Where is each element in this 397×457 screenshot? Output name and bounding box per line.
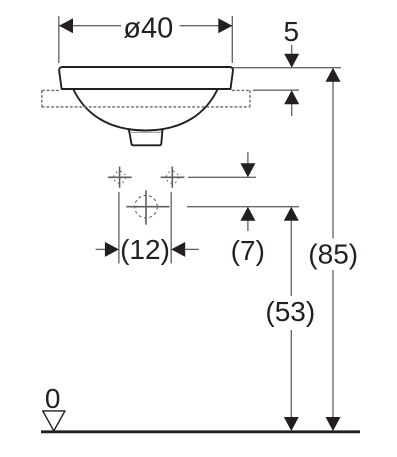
dim ø40 right extension line — [231, 16, 233, 63]
svg-text:(53): (53) — [265, 296, 315, 327]
tap hole mark right: cross — [161, 167, 185, 188]
drain trap mark: dashed circle — [135, 195, 158, 218]
dim 5 lower arrowhead (up) — [284, 90, 299, 104]
svg-text:5: 5 — [284, 16, 300, 47]
counter top reference line — [253, 89, 299, 91]
svg-text:(7): (7) — [231, 235, 265, 266]
drain fitting — [129, 130, 163, 146]
drain flange line — [131, 131, 162, 133]
dim (12) right extension line — [170, 192, 172, 264]
datum triangle — [43, 411, 65, 431]
svg-text:(12): (12) — [120, 234, 170, 265]
dim (85) line upper segment — [332, 79, 334, 239]
dim (7) upper arrow stem — [247, 152, 249, 166]
dim (53) line upper segment — [290, 217, 292, 296]
dim (53) bottom arrowhead (down) — [284, 417, 299, 431]
dim 5 upper arrowhead (down) — [284, 54, 299, 68]
dim 5 upper arrow stem — [291, 45, 293, 57]
dim (12) left arrow stem — [96, 248, 106, 250]
svg-text:0: 0 — [45, 383, 61, 414]
dim ø40 line left segment — [59, 25, 121, 27]
dim ø40 left arrowhead — [59, 18, 73, 33]
drain trap mark: cross — [126, 190, 169, 224]
basin bowl — [73, 89, 218, 130]
dim (85) line lower segment — [332, 270, 334, 419]
dim (7) upper arrowhead (down) — [240, 163, 255, 177]
dim (53) top arrowhead (up) — [284, 207, 299, 221]
countertop (dashed) top edge left segment — [42, 89, 60, 91]
dim (12) left arrowhead (right) — [105, 242, 119, 257]
dim (12) right arrowhead (left) — [171, 242, 185, 257]
basin rim — [59, 67, 233, 89]
svg-text:(85): (85) — [308, 239, 358, 270]
dim (85) top arrowhead (up) — [326, 68, 341, 82]
countertop (dashed) right edge — [249, 90, 251, 107]
dim (7) lower arrowhead (up) — [240, 207, 255, 221]
countertop (dashed) top edge right segment — [232, 89, 250, 91]
dim (12) right arrow stem — [184, 248, 199, 250]
rim top reference line — [233, 67, 341, 69]
dim ø40 right arrowhead — [218, 18, 232, 33]
drain level reference line — [187, 206, 299, 208]
tap hole mark left: dashed circle — [114, 171, 126, 183]
dim 5 lower arrow stem — [291, 102, 293, 116]
countertop (dashed) left edge — [41, 90, 43, 107]
dim (12) left extension line — [118, 192, 120, 264]
svg-text:ø40: ø40 — [123, 13, 173, 45]
dim (53) line lower segment — [290, 330, 292, 419]
countertop (dashed) bottom edge — [42, 106, 250, 108]
floor line — [41, 430, 360, 433]
tap holes level reference line — [188, 176, 256, 178]
tap hole mark left: cross — [108, 167, 132, 188]
dim ø40 line right segment — [180, 25, 232, 27]
dim (85) bottom arrowhead (down) — [326, 417, 341, 431]
dim (7) lower arrow stem — [247, 218, 249, 231]
dim ø40 left extension line — [58, 16, 60, 63]
tap hole mark right: dashed circle — [166, 171, 178, 183]
